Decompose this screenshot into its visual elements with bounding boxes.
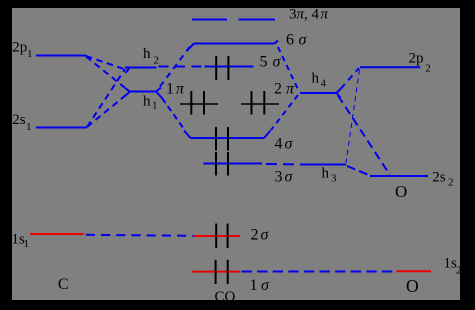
electrons on 2sigma	[216, 224, 227, 249]
wire 3sigma to h3 (dashed horizontal)	[266, 163, 302, 166]
svg-text:1s: 1s	[444, 255, 458, 271]
wire 2p1 to h2 (dashed)	[86, 56, 124, 69]
svg-text:3: 3	[331, 173, 337, 185]
wire h4 to 2p2 (dashed)	[341, 68, 360, 89]
svg-text:2: 2	[448, 177, 454, 189]
svg-text:h: h	[143, 94, 151, 110]
svg-text:O: O	[395, 182, 407, 201]
level h2	[125, 68, 157, 74]
svg-text:2s: 2s	[432, 170, 446, 186]
svg-text:O: O	[406, 276, 419, 296]
svg-text:1: 1	[27, 48, 33, 60]
level 1s1 (red)	[30, 233, 84, 235]
svg-text:1: 1	[24, 238, 30, 250]
wire 2p1 to h1 (dashed)	[86, 57, 129, 92]
svg-text:h: h	[143, 46, 151, 62]
wire h4 to 2s2 (dashed diagonal)	[338, 96, 390, 176]
wire 6sigma to h4 (dashed diagonal)	[278, 47, 299, 92]
svg-text:2: 2	[456, 265, 462, 277]
electrons on 5sigma	[216, 56, 228, 80]
level 1s2 (red right)	[397, 270, 432, 272]
level 2s2	[370, 175, 428, 177]
wire 2s1 to h2 (dashed)	[87, 69, 125, 127]
level 1pi group B (black with electrons)	[241, 91, 279, 115]
electrons on 1sigma	[216, 260, 228, 284]
level 1sigma (red)	[192, 271, 240, 273]
level 6sigma	[187, 41, 279, 52]
svg-text:CO: CO	[215, 289, 236, 305]
level 2p1	[36, 55, 86, 57]
level 3pi,4pi (empty, dashed)	[192, 19, 275, 21]
svg-text:1: 1	[152, 100, 158, 112]
svg-text:2: 2	[154, 55, 160, 67]
level 5sigma	[205, 66, 254, 68]
wire 1sigma to 1s2 (dashed blue)	[242, 271, 394, 273]
svg-text:h: h	[322, 166, 330, 182]
level 3sigma	[203, 163, 262, 165]
electrons on 3sigma	[216, 152, 228, 176]
svg-text:4: 4	[321, 78, 327, 90]
level 2sigma (red)	[193, 235, 240, 237]
svg-text:2σ: 2σ	[251, 227, 270, 244]
level h4	[300, 89, 341, 98]
level 2s1	[36, 127, 87, 129]
svg-text:3π, 4π: 3π, 4π	[289, 6, 329, 22]
level h3	[302, 164, 346, 166]
level h1	[125, 88, 162, 99]
wire h2 to 5sigma (dashed horizontal)	[159, 66, 206, 68]
svg-text:C: C	[58, 276, 69, 293]
wire h1 to 4sigma (dashed diagonal)	[162, 98, 185, 131]
wire h3 to 2s2 (dashed)	[347, 166, 370, 176]
electrons on 4sigma	[216, 127, 228, 151]
wire 1s1 to 2sigma (dashed blue)	[86, 235, 193, 236]
wire 6sigma to h1 (dashed diagonal)	[157, 47, 190, 91]
svg-text:h: h	[312, 71, 320, 87]
svg-text:2: 2	[425, 63, 431, 75]
svg-text:2p: 2p	[12, 39, 27, 55]
wire 2p2 to h3 (thin dashed)	[346, 70, 360, 164]
wire 2s1 to h1 (dashed)	[87, 93, 129, 128]
svg-text:3σ: 3σ	[275, 169, 294, 186]
svg-text:2s: 2s	[12, 112, 25, 128]
svg-text:1π: 1π	[166, 81, 185, 98]
level 2p2	[360, 66, 420, 68]
level 4sigma	[184, 131, 271, 139]
level 1pi group A (black with electrons)	[180, 91, 218, 115]
svg-text:2p: 2p	[409, 51, 424, 67]
svg-text:4σ: 4σ	[275, 136, 294, 153]
svg-text:1: 1	[26, 121, 32, 133]
wire h4 to 4sigma (dashed diagonal)	[271, 95, 298, 130]
